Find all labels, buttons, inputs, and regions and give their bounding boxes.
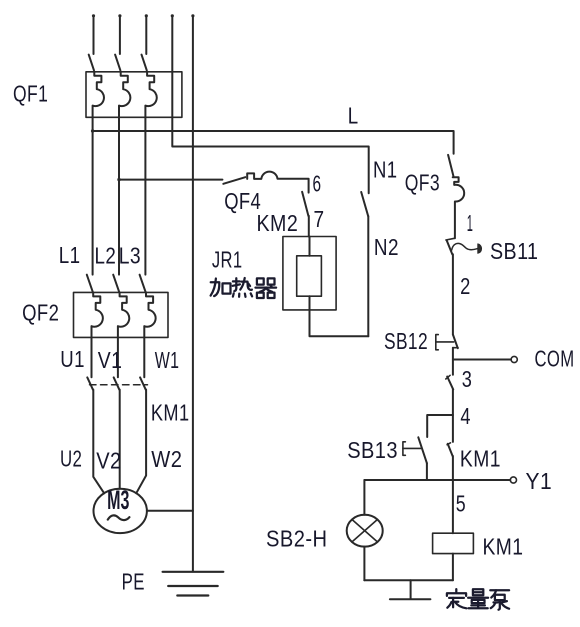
glyph jia — [211, 279, 231, 297]
motor tilde — [108, 515, 130, 520]
svg-text:KM2: KM2 — [257, 210, 299, 236]
pushbutton SB12 button bracket — [436, 335, 439, 350]
wire phase L1 incoming — [93, 16, 95, 55]
svg-text:KM1: KM1 — [483, 533, 524, 559]
contactor KM2 contact blade on N (N1-N2) — [361, 192, 368, 216]
wire lamp bottom — [363, 547, 365, 581]
wire COM tap — [453, 359, 511, 361]
breaker QF1 pole 1 trip element and wire down to QF2 — [93, 72, 104, 275]
wire phase L2 incoming — [119, 16, 121, 55]
svg-text:3: 3 — [462, 366, 473, 392]
svg-text:SB12: SB12 — [384, 328, 428, 354]
heater JR1 outer box — [283, 237, 336, 310]
svg-text:W1: W1 — [155, 347, 180, 373]
svg-text:L3: L3 — [119, 243, 141, 269]
pushbutton SB11 fixed contact tick — [446, 238, 455, 240]
ground PE bar 1 — [163, 571, 224, 573]
wire rail to COM and node 3 — [452, 348, 454, 375]
svg-text:4: 4 — [460, 403, 471, 429]
breaker QF1 pole 3 blade — [142, 55, 147, 71]
svg-text:6: 6 — [313, 171, 322, 197]
contactor KM1 aux contact tick — [447, 443, 450, 445]
wire phase L3 incoming — [145, 16, 147, 55]
glyph ding — [447, 589, 467, 608]
svg-text:1: 1 — [467, 210, 473, 236]
wire motor lead U — [93, 390, 104, 494]
node junction L branch on phase 1 — [91, 129, 94, 132]
pushbutton SB13 button bracket — [403, 442, 406, 456]
ground PE bar 3 — [177, 594, 208, 596]
svg-text:L2: L2 — [95, 243, 117, 269]
pushbutton SB12 lower tick — [453, 347, 458, 349]
svg-text:W2: W2 — [151, 446, 182, 472]
pushbutton SB11 plunger wave — [452, 243, 478, 250]
wire KM1 aux down — [452, 456, 454, 480]
wire SB13 down to Y1 line — [426, 463, 428, 480]
contact tick between node 3 and 4 — [446, 375, 450, 379]
breaker QF2 pole 1 blade — [87, 275, 93, 293]
wire motor lead W — [136, 390, 146, 494]
node dot phase L1 top — [92, 14, 95, 17]
svg-text:QF3: QF3 — [405, 170, 440, 196]
breaker QF3 blade — [448, 155, 453, 176]
pushbutton SB13 plunger — [403, 447, 421, 449]
contactor KM1 main contact pole 3 blade — [140, 377, 146, 389]
svg-text:COM: COM — [535, 345, 575, 371]
wire JR1 element out to N2 — [310, 296, 369, 336]
breaker QF1 box — [86, 72, 182, 118]
glyph qi — [256, 278, 277, 298]
svg-text:U1: U1 — [60, 346, 85, 372]
pushbutton SB11 blade — [447, 241, 452, 254]
svg-text:PE: PE — [122, 569, 145, 595]
pushbutton SB13 blade — [418, 437, 427, 463]
pushbutton SB11 button head — [478, 244, 482, 253]
glyph beng — [490, 590, 509, 609]
ground PE bar 2 — [168, 585, 218, 587]
wire heater branch from L2 to QF4 — [119, 179, 222, 181]
contactor KM1 aux contact blade — [448, 444, 453, 456]
svg-text:N1: N1 — [373, 156, 398, 182]
pushbutton SB12 plunger — [436, 341, 454, 343]
breaker QF2 pole 1 trip element and wire down — [92, 292, 103, 377]
lamp SB2-H cross — [352, 520, 377, 542]
breaker QF2 pole 3 blade — [140, 275, 146, 293]
contactor KM1 main contact pole 2 blade — [114, 377, 120, 389]
svg-text:KM1: KM1 — [151, 400, 190, 426]
breaker QF3 trip element and wire down — [453, 177, 464, 238]
svg-text:Y1: Y1 — [526, 468, 553, 494]
wire node 5 to coil — [452, 480, 454, 533]
node dot N line top — [171, 14, 174, 17]
breaker QF2 pole 2 trip element and wire down — [118, 292, 129, 377]
wire motor lead V — [119, 390, 121, 489]
svg-text:JR1: JR1 — [212, 247, 243, 273]
glyph liang — [468, 589, 488, 608]
svg-text:V1: V1 — [98, 347, 123, 373]
breaker QF4 blade — [223, 177, 245, 184]
coil KM1 rectangle — [433, 533, 474, 553]
terminal Y1 circle — [510, 477, 516, 483]
svg-text:U2: U2 — [60, 445, 82, 471]
svg-text:5: 5 — [456, 490, 466, 516]
contact blade between node 3 and 4 — [447, 377, 453, 390]
svg-text:QF1: QF1 — [13, 80, 48, 106]
wire lamp branch top — [363, 480, 365, 515]
breaker QF2 pole 2 blade — [113, 275, 119, 293]
wire motor to PE — [147, 510, 193, 512]
svg-text:KM1: KM1 — [460, 445, 501, 471]
wire rail node 4 — [452, 389, 454, 442]
breaker QF1 pole 2 trip element and wire down to QF2 — [119, 72, 130, 275]
heater JR1 element rectangle — [297, 256, 322, 296]
svg-text:SB13: SB13 — [347, 437, 398, 463]
svg-text:QF2: QF2 — [22, 300, 59, 326]
label ding liang beng (metering pump) hand-drawn glyphs — [447, 589, 509, 610]
breaker QF1 pole 2 blade — [115, 55, 120, 71]
breaker QF2 box — [74, 292, 169, 337]
contactor KM2 contact blade (pole 6-7) — [302, 192, 308, 216]
breaker QF1 pole 1 blade — [89, 55, 94, 71]
wire branch to SB13 — [427, 415, 453, 437]
pushbutton SB12 blade — [453, 335, 458, 349]
node dot PE line top — [191, 14, 194, 17]
label jia re qi (heater) hand-drawn glyphs — [211, 278, 277, 298]
svg-text:V2: V2 — [96, 447, 121, 473]
breaker QF2 pole 3 trip element and wire down — [144, 292, 155, 377]
svg-text:L: L — [348, 102, 359, 128]
wire into JR1 element — [309, 237, 311, 256]
svg-text:2: 2 — [460, 273, 471, 299]
svg-text:M3: M3 — [107, 485, 129, 515]
wire control line L to QF3 — [93, 131, 454, 154]
svg-text:L1: L1 — [59, 242, 81, 268]
wire N2 vertical — [367, 216, 369, 336]
lamp SB2-H circle — [347, 515, 383, 547]
contactor KM1 main contact pole 1 blade — [87, 377, 93, 389]
breaker QF4 trip element and corner down — [247, 172, 308, 193]
glyph re — [233, 278, 252, 297]
contactor KM1 mechanical link dashed — [90, 384, 148, 386]
node dot phase L3 top — [145, 14, 148, 17]
node junction heater branch on phase 2 — [117, 178, 120, 181]
ground chassis bar — [390, 598, 431, 600]
wire PE line vertical — [192, 16, 194, 572]
terminal COM circle — [511, 356, 517, 362]
wire Y1 line — [364, 479, 510, 481]
svg-text:SB11: SB11 — [490, 238, 538, 264]
wire coil bottom — [452, 554, 454, 581]
wire N line vertical then horizontal to KM2 contact — [172, 16, 368, 194]
wire bottom return — [364, 579, 453, 581]
motor M3 circle — [94, 489, 147, 533]
svg-text:SB2-H: SB2-H — [266, 526, 328, 552]
ground chassis stub — [410, 580, 412, 599]
wire control rail node 2 — [452, 254, 454, 334]
svg-text:N2: N2 — [374, 234, 399, 260]
node dot phase L2 top — [118, 14, 121, 17]
wire KM2 to heater JR1 — [308, 216, 310, 237]
svg-text:7: 7 — [314, 206, 325, 232]
breaker QF1 pole 3 trip element and wire down to QF2 — [145, 72, 156, 275]
